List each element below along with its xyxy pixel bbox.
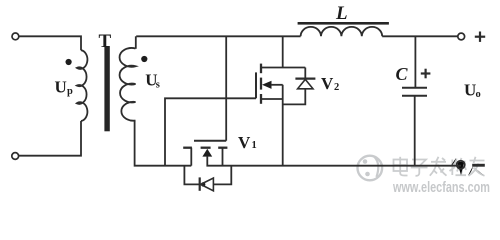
svg-text:C: C: [396, 64, 409, 84]
transistor V1 body stem to source: [207, 156, 222, 166]
transistor V2 body stem to source: [271, 84, 283, 86]
diode VD1 junction dot: [201, 182, 205, 186]
diode VD1 left drop: [184, 166, 199, 185]
svg-text:U: U: [464, 81, 476, 100]
wire top rail: [136, 35, 300, 37]
transistor V1 drain lead: [190, 148, 192, 166]
polarity dot secondary: [141, 56, 147, 62]
transistor V1 source lead: [222, 148, 224, 166]
diode VD1 cathode bar: [199, 177, 201, 190]
primary winding Up: [77, 50, 88, 121]
svg-text:V: V: [238, 133, 251, 152]
svg-text:1: 1: [252, 140, 257, 151]
plus sign capacitor: [421, 69, 431, 79]
transistor V2 channel segments: [260, 64, 262, 104]
terminal top-left: [12, 33, 19, 40]
svg-text:o: o: [476, 89, 481, 100]
svg-text:s: s: [156, 79, 160, 90]
diode VD2 bottom lead: [283, 89, 306, 105]
svg-text:p: p: [67, 86, 73, 97]
wire V2 gate to secondary bottom node: [165, 98, 256, 165]
capacitor C plates: [402, 87, 427, 89]
diode VD1 triangle: [201, 178, 214, 191]
transistor V2 drain lead: [261, 67, 305, 69]
svg-text:2: 2: [334, 82, 339, 93]
terminal bottom-right: [457, 161, 465, 169]
watermark chinese pseudo-glyphs: [394, 157, 485, 176]
wire V2 drain drop from rail: [282, 36, 284, 67]
inductor core bar: [298, 22, 389, 25]
polarity dot primary: [66, 59, 72, 65]
diode VD1 anode wire: [213, 166, 231, 185]
terminal bottom-left: [12, 153, 19, 160]
transistor V2 gate bar: [255, 72, 257, 98]
wire source node to right: [223, 165, 462, 167]
svg-text:U: U: [55, 78, 67, 97]
wire rail to output: [382, 35, 458, 37]
wire V1 gate drive from rail: [225, 36, 227, 140]
transistor V1 gate bar: [194, 140, 226, 142]
diode VD2 triangle: [298, 79, 313, 88]
plus sign output: [475, 32, 485, 42]
minus sign output: [472, 164, 485, 167]
watermark: [358, 156, 485, 181]
transistor V1 body arrow: [202, 149, 212, 157]
svg-text:www.elecfans.com: www.elecfans.com: [392, 180, 490, 196]
svg-text:V: V: [321, 74, 334, 93]
diode VD2 top lead: [304, 68, 306, 80]
svg-text:T: T: [99, 31, 112, 52]
watermark logo circle: [358, 156, 383, 181]
transistor V2 source lead: [261, 98, 283, 100]
secondary winding Us: [120, 48, 136, 121]
wire V2 source down: [282, 85, 284, 166]
diode VD2 cathode bar: [295, 77, 315, 79]
wire primary bottom: [19, 121, 81, 156]
capacitor C bottom lead: [414, 97, 416, 166]
transistor V1 channel segments: [183, 147, 227, 149]
wire secondary bottom lead: [135, 120, 192, 166]
inductor L: [301, 27, 383, 36]
wire secondary top lead: [135, 36, 137, 49]
transistor V2 body arrow: [262, 81, 272, 89]
wire top-left: [19, 36, 81, 50]
svg-text:L: L: [335, 3, 348, 24]
capacitor C top lead: [414, 36, 416, 87]
transformer core T: [104, 46, 109, 131]
terminal top-right: [458, 33, 465, 40]
